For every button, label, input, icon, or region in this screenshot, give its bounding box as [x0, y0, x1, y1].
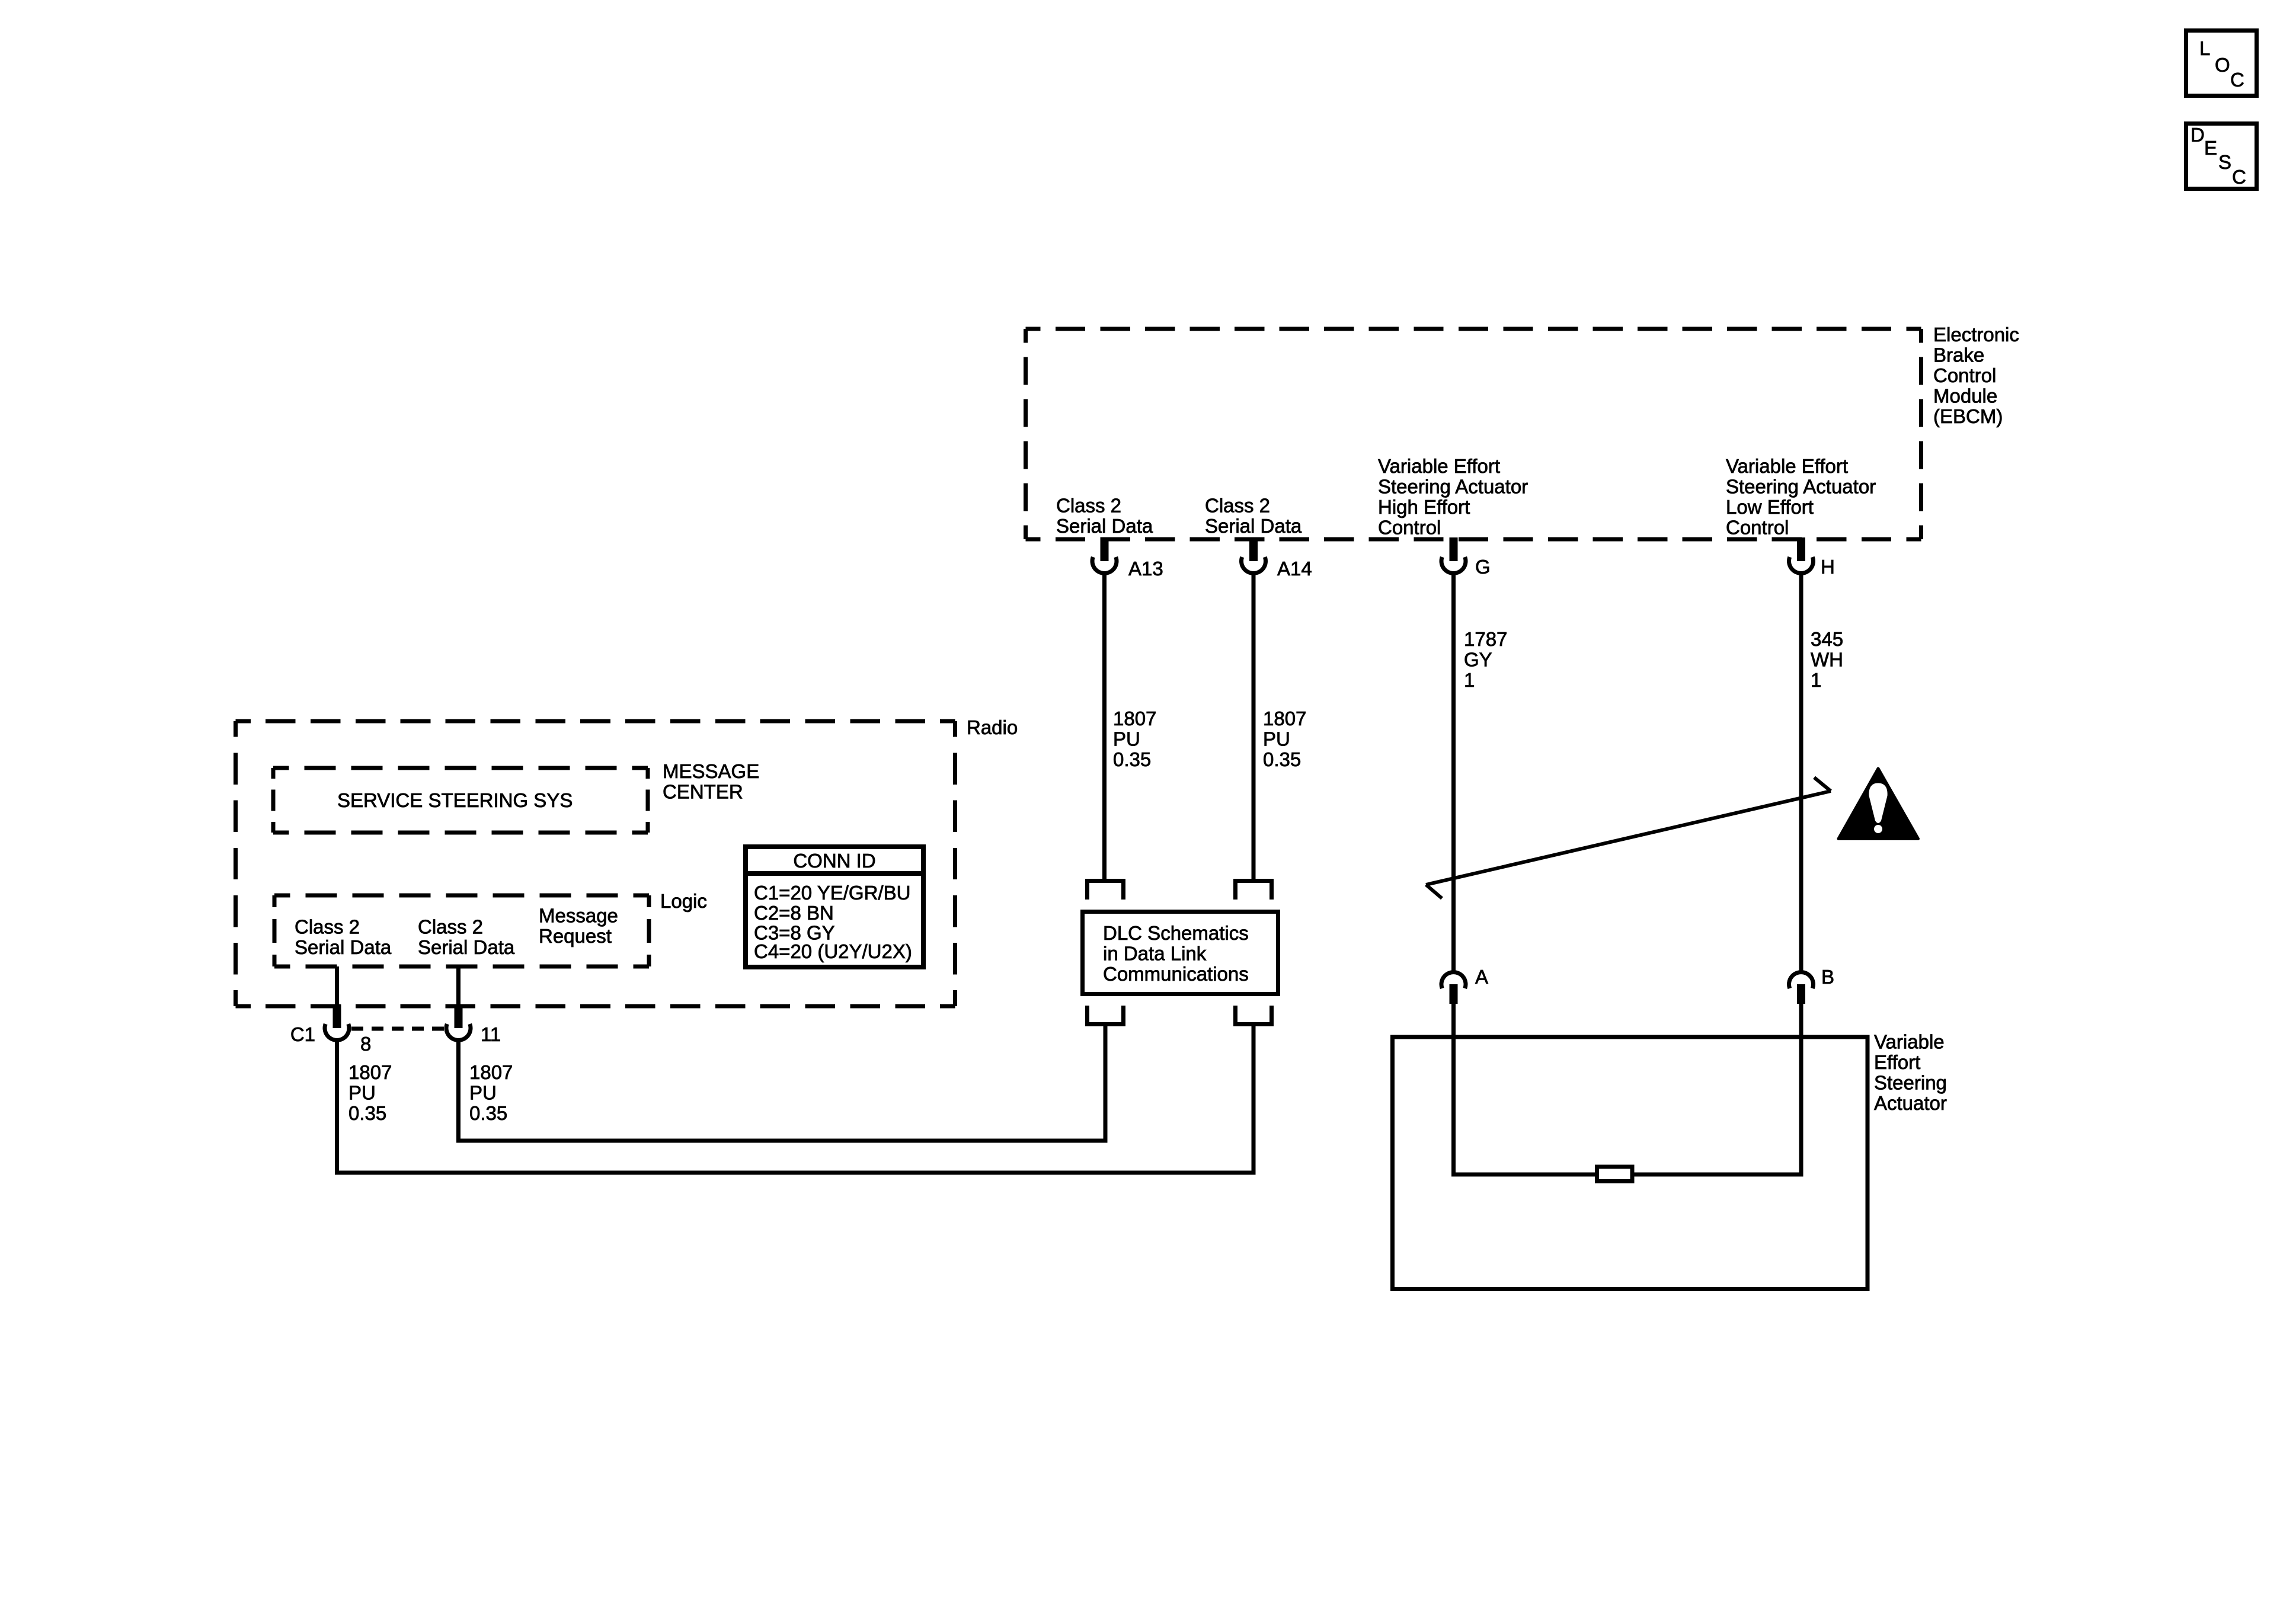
- svg-text:Module: Module: [1933, 385, 1997, 407]
- svg-text:D: D: [2191, 124, 2205, 146]
- svg-text:C1=20 YE/GR/BU: C1=20 YE/GR/BU: [754, 882, 910, 904]
- svg-text:H: H: [1821, 556, 1835, 578]
- label: Class 2 Serial Data (wire 8): [295, 916, 392, 959]
- svg-text:PU: PU: [1263, 728, 1290, 750]
- label: MESSAGE CENTER: [663, 760, 759, 803]
- svg-text:1807: 1807: [1263, 708, 1306, 729]
- actuator element (resistor): [1597, 1167, 1633, 1182]
- svg-text:A13: A13: [1128, 558, 1163, 580]
- svg-text:Control: Control: [1378, 517, 1441, 539]
- svg-text:Low Effort: Low Effort: [1726, 496, 1814, 518]
- svg-text:A14: A14: [1277, 558, 1312, 580]
- svg-text:SERVICE STEERING SYS: SERVICE STEERING SYS: [337, 789, 573, 811]
- svg-text:1807: 1807: [348, 1061, 392, 1083]
- svg-text:Serial Data: Serial Data: [418, 936, 515, 958]
- svg-text:Class 2: Class 2: [1056, 495, 1121, 517]
- svg-text:1: 1: [1464, 669, 1475, 691]
- svg-text:1787: 1787: [1464, 628, 1507, 650]
- wire 11 from Logic box to connector: [456, 966, 461, 1006]
- svg-text:PU: PU: [469, 1082, 497, 1104]
- pin G connector: [1441, 537, 1491, 578]
- svg-text:CENTER: CENTER: [663, 781, 743, 803]
- svg-text:GY: GY: [1464, 649, 1492, 671]
- warning triangle: [1838, 769, 1918, 839]
- pin A14 connector: [1242, 537, 1312, 580]
- svg-text:1807: 1807: [1113, 708, 1156, 729]
- svg-text:0.35: 0.35: [1113, 748, 1151, 770]
- svg-text:0.35: 0.35: [348, 1102, 386, 1124]
- label: Variable Effort Steering Actuator High Effort Control (pin G): [1378, 455, 1528, 539]
- CONN ID table: [746, 847, 923, 967]
- svg-text:Serial Data: Serial Data: [295, 936, 392, 958]
- label: Message Request: [539, 905, 618, 948]
- pin H connector: [1789, 537, 1835, 578]
- MESSAGE CENTER dashed box: [273, 768, 648, 833]
- EBCM dashed box (Electronic Brake Control Module): [1026, 329, 1921, 539]
- svg-text:High Effort: High Effort: [1378, 496, 1470, 518]
- DLC top-left bracket connector: [1088, 881, 1124, 900]
- svg-text:0.35: 0.35: [1263, 748, 1301, 770]
- wire label 345 WH 1: [1811, 628, 1843, 691]
- wire H to connector B: [1799, 573, 1803, 971]
- svg-text:Effort: Effort: [1874, 1051, 1920, 1073]
- svg-text:Variable: Variable: [1874, 1031, 1945, 1053]
- svg-text:Steering Actuator: Steering Actuator: [1726, 476, 1876, 498]
- svg-text:C1: C1: [290, 1023, 315, 1045]
- svg-text:Communications: Communications: [1103, 963, 1249, 985]
- svg-text:G: G: [1475, 556, 1491, 578]
- svg-text:A: A: [1475, 966, 1488, 988]
- wire A14 to DLC top bracket: [1252, 573, 1256, 881]
- svg-text:Steering Actuator: Steering Actuator: [1378, 476, 1528, 498]
- svg-text:Logic: Logic: [660, 890, 707, 912]
- svg-text:Message: Message: [539, 905, 618, 927]
- label: Variable Effort Steering Actuator: [1874, 1031, 1947, 1115]
- svg-text:CONN ID: CONN ID: [793, 850, 875, 872]
- svg-text:S: S: [2218, 151, 2231, 173]
- svg-text:Control: Control: [1933, 364, 1996, 386]
- wire label 1787 GY 1: [1464, 628, 1507, 691]
- svg-text:DLC Schematics: DLC Schematics: [1103, 922, 1249, 944]
- wire A-B through actuator element: [1454, 1003, 1802, 1174]
- connector B: [1789, 966, 1835, 1004]
- svg-text:Class 2: Class 2: [295, 916, 360, 938]
- pin A13 connector: [1092, 537, 1163, 580]
- svg-text:Serial Data: Serial Data: [1056, 515, 1153, 537]
- DESC reference box: [2186, 124, 2257, 189]
- wire A13 to DLC top bracket: [1102, 573, 1107, 881]
- svg-text:8: 8: [360, 1033, 371, 1055]
- svg-text:(EBCM): (EBCM): [1933, 405, 2003, 427]
- svg-text:MESSAGE: MESSAGE: [663, 760, 759, 782]
- svg-text:B: B: [1821, 966, 1834, 988]
- dashed connector link C1: [351, 1027, 444, 1031]
- svg-text:Request: Request: [539, 925, 612, 947]
- svg-text:Radio: Radio: [967, 716, 1018, 738]
- DLC top-right bracket connector: [1236, 881, 1272, 900]
- svg-text:1: 1: [1811, 669, 1821, 691]
- svg-text:C2=8 BN: C2=8 BN: [754, 902, 834, 924]
- wire label 1807 PU 0.35 (A13): [1113, 708, 1156, 770]
- Variable Effort Steering Actuator box: [1393, 1037, 1868, 1289]
- svg-text:L: L: [2199, 37, 2210, 59]
- svg-text:PU: PU: [1113, 728, 1140, 750]
- Radio dashed box: [236, 721, 955, 1006]
- svg-text:E: E: [2204, 137, 2217, 159]
- svg-text:Control: Control: [1726, 517, 1789, 539]
- svg-text:C: C: [2230, 69, 2244, 91]
- svg-text:Variable Effort: Variable Effort: [1378, 455, 1500, 477]
- label: Class 2 Serial Data (pin A14): [1205, 495, 1302, 537]
- svg-text:Class 2: Class 2: [418, 916, 483, 938]
- svg-text:Class 2: Class 2: [1205, 495, 1270, 517]
- connector A: [1441, 966, 1488, 1004]
- wire 8 from Logic box to C1 connector: [335, 966, 339, 1006]
- wire label 1807 PU 0.35 (wire 8): [348, 1061, 392, 1124]
- LOC reference box: [2186, 31, 2257, 96]
- annotation arrow (crossed wires callout): [1426, 777, 1831, 898]
- wire 8 run to DLC bottom-right bracket: [337, 1024, 1254, 1173]
- svg-text:C4=20 (U2Y/U2X): C4=20 (U2Y/U2X): [754, 940, 912, 962]
- svg-text:345: 345: [1811, 628, 1843, 650]
- DLC bottom-left bracket connector: [1088, 1006, 1124, 1025]
- svg-text:Electronic: Electronic: [1933, 324, 2019, 345]
- svg-text:Actuator: Actuator: [1874, 1092, 1947, 1114]
- DLC Schematics box: [1083, 912, 1278, 994]
- label: Variable Effort Steering Actuator Low Effort Control (pin H): [1726, 455, 1876, 539]
- wire 11 run to DLC bottom-left bracket: [459, 1024, 1106, 1141]
- svg-text:Steering: Steering: [1874, 1072, 1947, 1094]
- svg-text:0.35: 0.35: [469, 1102, 507, 1124]
- wire label 1807 PU 0.35 (wire 11): [469, 1061, 513, 1124]
- DLC bottom-right bracket connector: [1236, 1006, 1272, 1025]
- svg-text:1807: 1807: [469, 1061, 513, 1083]
- svg-text:PU: PU: [348, 1082, 376, 1104]
- svg-text:Serial Data: Serial Data: [1205, 515, 1302, 537]
- svg-text:in Data Link: in Data Link: [1103, 943, 1207, 965]
- wire label 1807 PU 0.35 (A14): [1263, 708, 1306, 770]
- wire G to connector A: [1451, 573, 1456, 971]
- label: Class 2 Serial Data (pin A13): [1056, 495, 1153, 537]
- label: Electronic Brake Control Module (EBCM): [1933, 324, 2019, 427]
- label: Class 2 Serial Data (wire 11): [418, 916, 515, 959]
- Logic dashed box: [274, 895, 649, 966]
- svg-text:O: O: [2215, 54, 2230, 76]
- svg-text:C: C: [2232, 166, 2246, 188]
- connector C1 pin 11: [446, 1004, 471, 1040]
- connector C1 pin 8: [325, 1004, 349, 1040]
- svg-text:Variable Effort: Variable Effort: [1726, 455, 1848, 477]
- svg-text:11: 11: [481, 1023, 501, 1045]
- svg-text:WH: WH: [1811, 649, 1843, 671]
- svg-text:Brake: Brake: [1933, 344, 1984, 366]
